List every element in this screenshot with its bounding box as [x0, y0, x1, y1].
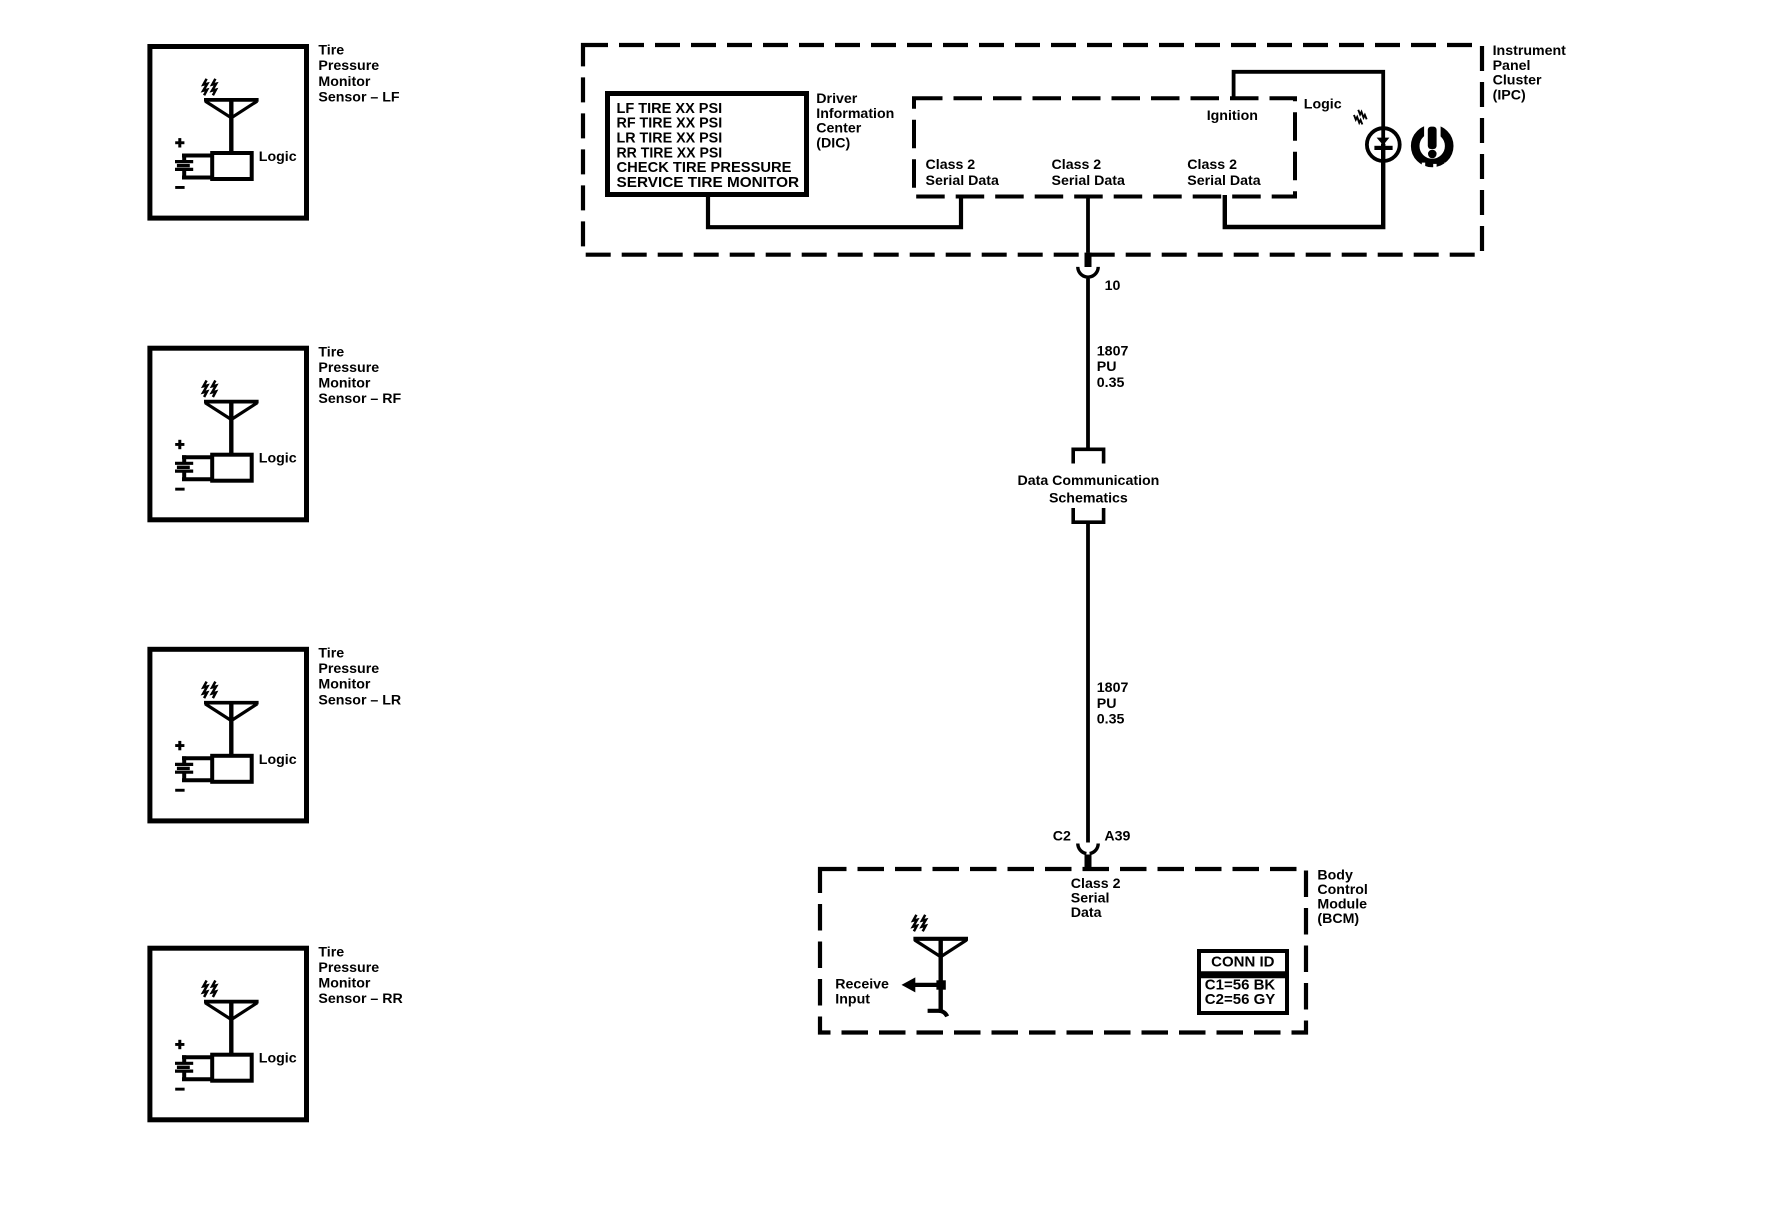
BCM receiver antenna: [913, 939, 968, 1011]
svg-text:(IPC): (IPC): [1493, 87, 1526, 103]
svg-text:Pressure: Pressure: [318, 58, 379, 74]
wire 1807 PU upper segment: [1086, 275, 1090, 449]
connector: IPC pin 10: [1078, 253, 1098, 277]
svg-text:Data Communication: Data Communication: [1017, 473, 1159, 489]
svg-text:C2: C2: [1053, 828, 1071, 844]
svg-text:Module: Module: [1317, 897, 1367, 913]
svg-text:CONN ID: CONN ID: [1211, 954, 1275, 971]
svg-text:Center: Center: [816, 121, 861, 137]
Driver Information Center (DIC) display box: [608, 94, 807, 195]
battery B (sensor LR): [175, 764, 193, 772]
svg-text:Monitor: Monitor: [318, 677, 370, 693]
svg-text:Schematics: Schematics: [1049, 490, 1128, 506]
svg-text:Logic: Logic: [259, 451, 297, 467]
pin label 10: [1105, 278, 1121, 294]
svg-text:Logic: Logic: [259, 149, 297, 165]
svg-text:1807: 1807: [1097, 343, 1129, 359]
svg-text:Ignition: Ignition: [1207, 108, 1258, 124]
net label: Class 2 Serial Data (lamp side): [1187, 157, 1260, 189]
svg-text:Tire: Tire: [318, 645, 344, 661]
svg-text:(DIC): (DIC): [816, 135, 850, 151]
net label: Class 2 Serial Data (BCM): [1071, 876, 1121, 921]
svg-text:Sensor – LF: Sensor – LF: [318, 90, 400, 106]
antenna (sensor LF): [204, 100, 259, 153]
wire: Class 2 Serial Data down from IPC: [1086, 195, 1090, 253]
label: Logic (IPC): [1304, 96, 1342, 112]
wire battery- to logic (sensor RF): [182, 471, 212, 480]
Tire Pressure Monitor Sensor - RF component box: [150, 348, 307, 520]
Tire Pressure Monitor Sensor - RR component box: [150, 948, 307, 1120]
svg-text:Logic: Logic: [259, 1051, 297, 1067]
svg-text:Pressure: Pressure: [318, 661, 379, 677]
svg-text:1807: 1807: [1097, 680, 1129, 696]
antenna (sensor RF): [204, 402, 259, 455]
svg-text:Pressure: Pressure: [318, 960, 379, 976]
svg-text:SERVICE TIRE MONITOR: SERVICE TIRE MONITOR: [617, 174, 800, 191]
wire battery- to logic (sensor RR): [182, 1071, 212, 1080]
off-page reference: Data Communication Schematics: [1017, 449, 1159, 522]
label: Tire Pressure Monitor Sensor - RR: [318, 944, 402, 1007]
label: Driver Information Center (DIC): [816, 91, 894, 151]
wire: lamp to Class 2 Serial Data return: [1225, 144, 1383, 227]
logic block (sensor RF): [212, 451, 297, 481]
IPC internal logic dashed box: [914, 98, 1295, 196]
wire: DIC to Class 2 Serial Data: [708, 197, 961, 228]
label: Instrument Panel Cluster (IPC): [1493, 43, 1567, 103]
svg-text:Sensor – LR: Sensor – LR: [318, 692, 401, 708]
svg-text:0.35: 0.35: [1097, 712, 1125, 728]
logic block (sensor LF): [212, 149, 297, 179]
connector label C2: [1053, 828, 1071, 844]
wire battery- to logic (sensor LR): [182, 772, 212, 781]
battery negative terminal - (sensor RF): [175, 488, 184, 491]
svg-text:0.35: 0.35: [1097, 375, 1125, 391]
svg-text:Monitor: Monitor: [318, 74, 370, 90]
svg-text:Class 2: Class 2: [926, 157, 976, 173]
battery B (sensor RF): [175, 463, 193, 471]
svg-text:Data: Data: [1071, 905, 1102, 921]
svg-text:Sensor – RF: Sensor – RF: [318, 391, 401, 407]
svg-text:Serial Data: Serial Data: [1187, 173, 1260, 189]
svg-text:10: 10: [1105, 278, 1121, 294]
svg-text:A39: A39: [1104, 828, 1130, 844]
label: Tire Pressure Monitor Sensor - RF: [318, 344, 401, 407]
svg-text:Body: Body: [1317, 867, 1353, 883]
light rays into lamp: [1352, 109, 1368, 125]
battery B (sensor LF): [175, 162, 193, 170]
svg-text:Control: Control: [1317, 882, 1367, 898]
battery positive terminal + (sensor RF): [175, 440, 184, 449]
svg-text:Information: Information: [816, 106, 894, 122]
svg-text:Pressure: Pressure: [318, 360, 379, 376]
svg-text:Sensor – RR: Sensor – RR: [318, 991, 402, 1007]
svg-text:Panel: Panel: [1493, 58, 1531, 74]
radio waves (sensor RF): [203, 381, 216, 398]
logic block (sensor LR): [212, 752, 297, 782]
radio waves (sensor LF): [203, 79, 216, 96]
net label: Ignition: [1207, 108, 1258, 124]
radio waves (sensor LR): [203, 682, 216, 698]
battery positive terminal + (sensor RR): [175, 1040, 184, 1049]
Tire Pressure Monitor Sensor - LF component box: [150, 47, 307, 219]
wire battery+ to logic (sensor RR): [182, 1055, 212, 1063]
receive input arrow: [902, 977, 946, 992]
svg-text:Class 2: Class 2: [1187, 157, 1237, 173]
radio waves (sensor RR): [203, 981, 216, 997]
svg-text:(BCM): (BCM): [1317, 911, 1359, 927]
battery B (sensor RR): [175, 1063, 193, 1071]
label: Tire Pressure Monitor Sensor - LR: [318, 645, 401, 708]
wire 1807 PU lower segment: [1086, 522, 1090, 842]
antenna (sensor LR): [204, 703, 259, 756]
svg-text:PU: PU: [1097, 696, 1117, 712]
label: Tire Pressure Monitor Sensor - LF: [318, 43, 400, 106]
Tire Pressure Monitor Sensor - LR component box: [150, 649, 307, 821]
svg-text:Input: Input: [835, 991, 870, 1007]
svg-text:Driver: Driver: [816, 91, 857, 107]
svg-text:Tire: Tire: [318, 344, 344, 360]
CONN ID table: [1199, 951, 1287, 1013]
label: Receive Input: [835, 977, 889, 1008]
Instrument Panel Cluster (IPC) dashed box: [583, 45, 1482, 255]
wire battery- to logic (sensor LF): [182, 169, 212, 178]
svg-text:PU: PU: [1097, 359, 1117, 375]
connector label A39: [1104, 828, 1130, 844]
radio waves (BCM antenna): [913, 915, 926, 931]
svg-text:Serial Data: Serial Data: [926, 173, 999, 189]
svg-text:Instrument: Instrument: [1493, 43, 1567, 59]
svg-text:Monitor: Monitor: [318, 376, 370, 392]
wire battery+ to logic (sensor LF): [182, 154, 212, 162]
net label: Class 2 Serial Data (DIC side): [926, 157, 999, 189]
svg-text:Cluster: Cluster: [1493, 73, 1542, 89]
battery positive terminal + (sensor LF): [175, 138, 184, 147]
svg-text:Logic: Logic: [259, 752, 297, 768]
logic block (sensor RR): [212, 1051, 297, 1081]
battery negative terminal - (sensor LR): [175, 789, 184, 792]
wire battery+ to logic (sensor RF): [182, 455, 212, 463]
svg-text:Tire: Tire: [318, 944, 344, 960]
battery positive terminal + (sensor LR): [175, 741, 184, 750]
svg-text:Receive: Receive: [835, 977, 889, 993]
wire label 1807 PU 0.35 (lower): [1097, 680, 1129, 727]
svg-text:Tire: Tire: [318, 43, 344, 59]
svg-text:Serial Data: Serial Data: [1052, 173, 1125, 189]
svg-text:Monitor: Monitor: [318, 976, 370, 992]
label: Body Control Module (BCM): [1317, 867, 1367, 927]
antenna (sensor RR): [204, 1002, 259, 1055]
wire label 1807 PU 0.35 (upper): [1097, 343, 1129, 390]
Body Control Module (BCM) dashed box: [820, 869, 1306, 1033]
DIC display text: [617, 100, 800, 191]
antenna base hook: [928, 1011, 948, 1017]
connector: BCM C2 pin A39: [1078, 844, 1098, 870]
wire: Ignition feed up and over to indicator: [1234, 72, 1384, 145]
svg-text:Class 2: Class 2: [1052, 157, 1102, 173]
net label: Class 2 Serial Data (center): [1052, 157, 1125, 189]
TPMS warning indicator icon: [1415, 118, 1449, 170]
svg-text:Logic: Logic: [1304, 96, 1342, 112]
svg-text:C2=56 GY: C2=56 GY: [1205, 991, 1275, 1008]
battery negative terminal - (sensor LF): [175, 186, 184, 189]
battery negative terminal - (sensor RR): [175, 1088, 184, 1091]
indicator lamp (LED) symbol: [1367, 128, 1400, 161]
wire battery+ to logic (sensor LR): [182, 756, 212, 764]
